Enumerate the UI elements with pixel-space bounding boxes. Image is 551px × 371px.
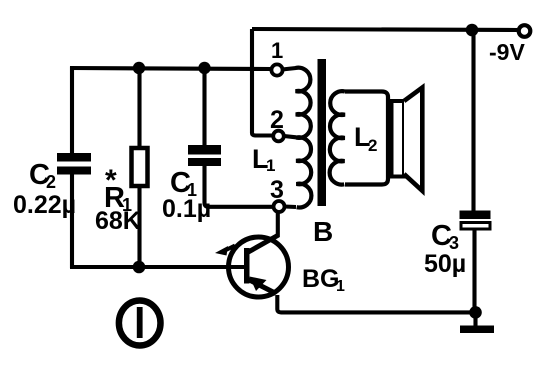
wire: C1 top lead xyxy=(202,68,206,146)
svg-text:0.22µ: 0.22µ xyxy=(13,191,76,219)
transformer core B xyxy=(318,59,327,206)
svg-text:68K: 68K xyxy=(95,207,141,235)
node: junction top bus / C3 branch xyxy=(466,24,479,37)
label L1 xyxy=(252,144,275,175)
capacitor C3 (electrolytic) xyxy=(460,211,491,230)
wire: R1 bottom lead xyxy=(137,186,141,267)
figure number 1 (circled) xyxy=(119,301,161,346)
svg-text:BG: BG xyxy=(302,265,340,293)
label 0.1u xyxy=(162,195,211,223)
label 1 xyxy=(271,38,283,63)
transformer L2 secondary winding xyxy=(330,91,388,184)
label 68K xyxy=(95,207,141,235)
terminal 3 xyxy=(274,201,285,212)
label 50u xyxy=(424,250,466,278)
terminal 1 xyxy=(271,64,282,75)
label BG1 xyxy=(302,265,345,295)
svg-text:1: 1 xyxy=(336,278,345,295)
node: junction C1 top xyxy=(198,62,210,74)
resistor R1 xyxy=(132,148,148,186)
battery terminal -9V xyxy=(519,25,531,37)
node: junction ground branch xyxy=(469,306,482,319)
transistor BG1 xyxy=(215,212,289,298)
label * (asterisk for R1) xyxy=(105,164,117,197)
svg-text:-9V: -9V xyxy=(489,39,525,65)
svg-text:2: 2 xyxy=(46,172,56,192)
label C3 xyxy=(431,220,459,253)
label L2 xyxy=(354,122,377,155)
svg-text:1: 1 xyxy=(266,156,275,175)
wire: left vertical branch down to C2 xyxy=(70,67,74,155)
node: junction R1 top xyxy=(133,62,145,74)
wire: C2 bottom lead to base bus xyxy=(70,174,74,268)
wire: left horizontal bus (terminal 1 net) xyxy=(70,68,272,69)
wire: emitter bus (bottom horizontal) xyxy=(277,295,475,312)
node: junction R1 bottom / base bus xyxy=(133,261,146,274)
label -9V xyxy=(489,39,525,65)
label B xyxy=(313,216,333,247)
label R1 xyxy=(104,182,132,215)
svg-text:3: 3 xyxy=(270,176,284,204)
wire: base bus (bottom-left horizontal) xyxy=(70,265,245,269)
label C1 xyxy=(170,167,197,200)
label 2 xyxy=(270,106,284,134)
wire: C3 branch vertical (top section) xyxy=(471,30,475,211)
svg-text:50µ: 50µ xyxy=(424,250,466,278)
terminal 2 xyxy=(273,131,284,142)
capacitor C1 xyxy=(188,145,221,166)
wire: vertical drop from top bus to terminal 2 xyxy=(252,29,273,136)
ground xyxy=(460,312,494,333)
label 0.22u xyxy=(13,191,76,219)
wire: top supply bus xyxy=(252,29,518,30)
transformer L1 primary winding xyxy=(282,68,311,208)
label 3 xyxy=(270,176,284,204)
speaker xyxy=(392,88,423,191)
capacitor C2 xyxy=(57,153,91,175)
svg-text:B: B xyxy=(313,216,333,247)
wire: C1 bottom lead to terminal 3 xyxy=(205,166,274,207)
svg-text:2: 2 xyxy=(368,136,377,155)
label C2 xyxy=(29,159,56,192)
svg-text:1: 1 xyxy=(271,38,283,63)
svg-text:2: 2 xyxy=(270,106,284,134)
wire: C3 bottom lead to ground bus xyxy=(472,229,476,313)
wire: R1 top lead xyxy=(137,68,141,150)
